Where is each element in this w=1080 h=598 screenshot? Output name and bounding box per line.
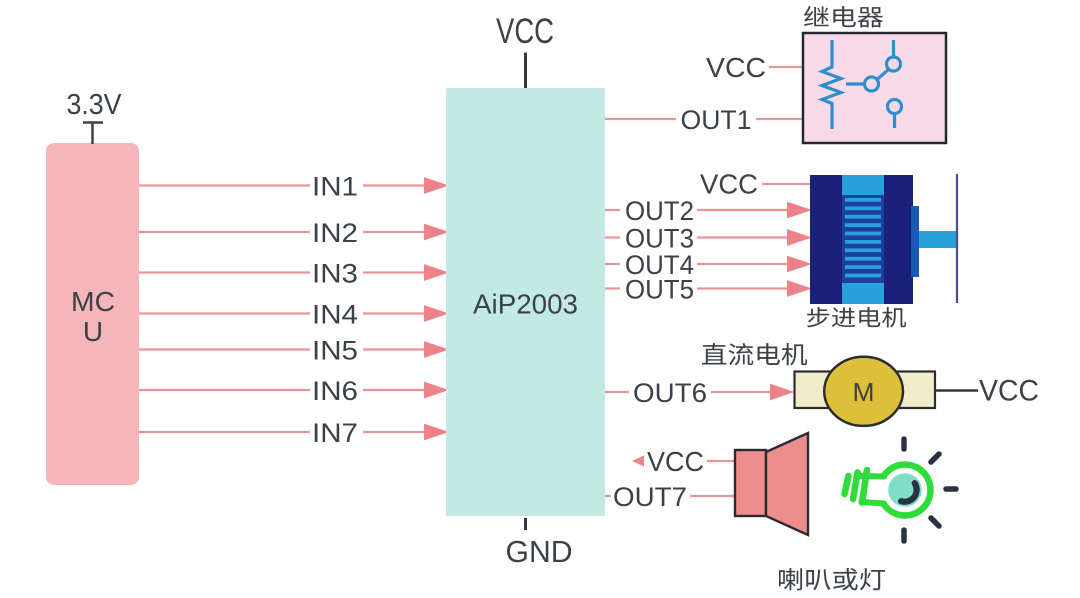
DC motor M2 frame [795,372,936,409]
wire IN3 right segment [363,271,424,273]
svg-text:IN3: IN3 [312,258,358,288]
lamp DS1 neck arms [862,476,885,504]
wire M2 to VCC [935,389,978,391]
wire IN2 left segment [139,231,310,233]
wire OUT1 right segment [756,118,802,120]
speaker LS1 horn [766,433,808,535]
wire OUT2 stub [605,209,620,211]
DC motor M2 rotor circle [824,357,903,426]
stepper M1 top pole [842,175,884,195]
svg-text:GND: GND [506,534,573,569]
wire OUT6 stub [605,391,629,393]
svg-text:MC: MC [71,286,115,317]
stepper M1 shaft [919,231,957,248]
arrowhead OUT3 [787,229,812,246]
svg-text:IN4: IN4 [312,299,358,329]
arrowhead IN6 into U2 [424,382,449,399]
wire OUT3 to motor [697,236,787,238]
arrowhead IN1 into U2 [424,177,449,194]
stepper M1 mount line [956,174,958,303]
svg-text:VCC: VCC [700,169,758,200]
arrowhead IN2 into U2 [424,224,449,241]
arrowhead IN5 into U2 [424,341,449,358]
lamp DS1 inner glow [888,473,922,507]
wire IN5 left segment [139,348,310,350]
wire VCC to relay K1 [769,66,803,68]
MCU U1 label [71,286,115,347]
wire OUT5 to motor [697,287,787,289]
driver IC U2 AiP2003 body [446,88,605,516]
wire VCC to speaker LS1 [707,460,734,462]
svg-text:VCC: VCC [647,446,704,477]
wire OUT4 stub [605,263,620,265]
svg-text:M: M [853,377,875,407]
svg-text:OUT2: OUT2 [625,196,694,226]
svg-text:VCC: VCC [979,374,1039,407]
relay K1 contacts [846,40,902,128]
arrowhead OUT4 [787,256,812,273]
wire OUT5 stub [605,287,620,289]
arrowhead OUT6 [770,384,794,401]
lamp DS1 base threads [845,470,868,503]
svg-text:IN2: IN2 [312,218,358,248]
component label DC motor 直流电机 [702,343,807,365]
stepper motor M1 body [810,175,913,304]
wire IN1 right segment [363,184,424,186]
svg-text:OUT3: OUT3 [625,223,694,253]
svg-text:OUT6: OUT6 [633,378,707,408]
lamp DS1 filament arc [901,483,917,502]
MCU U1 body [46,143,139,485]
relay K1 box [803,33,946,143]
svg-text:OUT7: OUT7 [613,482,687,512]
power rail symbol 3.3V [83,123,103,145]
svg-text:AiP2003: AiP2003 [473,289,578,320]
wire OUT6 to motor M2 [711,391,770,393]
wire IN3 left segment [139,271,310,273]
wire OUT7 stub [605,495,611,497]
wire OUT4 to motor [697,263,787,265]
lamp DS1 bulb glass ring [884,465,931,516]
svg-text:OUT1: OUT1 [681,105,752,135]
component label stepper 步进电机 [807,307,906,327]
wire IN6 right segment [363,389,424,391]
stepper M1 coil background [842,195,884,283]
wire VCC to stepper M1 [762,183,810,185]
arrowhead IN3 into U2 [424,264,449,281]
arrowhead IN4 into U2 [424,305,449,322]
svg-text:VCC: VCC [496,12,554,51]
svg-text:IN7: IN7 [312,418,358,448]
wire OUT2 to motor [697,209,787,211]
arrowhead VCC (speaker, points left) [632,456,644,467]
speaker LS1 driver box [735,450,766,516]
svg-text:3.3V: 3.3V [67,89,123,121]
wire OUT3 stub [605,236,620,238]
arrowhead IN7 into U2 [424,424,449,441]
wire IN7 right segment [363,431,424,433]
wire IN7 left segment [139,431,310,433]
svg-text:IN1: IN1 [312,171,358,201]
wire IN6 left segment [139,389,310,391]
wire GND stem from U2 [524,518,527,530]
stepper M1 bottom pole [842,283,884,304]
arrowhead OUT5 [787,280,812,297]
wire IN1 left segment [139,184,310,186]
wire IN2 right segment [363,231,424,233]
stepper M1 winding stripes [845,198,881,277]
wire IN5 right segment [363,348,424,350]
svg-text:U: U [83,316,103,347]
wire VCC stem to U2 [524,53,527,89]
arrowhead OUT2 [787,202,812,219]
relay K1 coil [822,40,841,129]
lamp DS1 light rays [904,439,956,541]
stepper M1 bearing tab [911,206,919,277]
wire OUT7 to speaker LS1 [690,495,734,497]
wire IN4 right segment [363,312,424,314]
svg-text:IN5: IN5 [312,335,358,365]
svg-text:VCC: VCC [706,52,766,83]
wire IN4 left segment [139,312,310,314]
svg-text:IN6: IN6 [312,376,358,406]
wire OUT1 left segment [605,118,676,120]
component label speaker/lamp 喇叭或灯 [779,568,885,590]
component label relay 继电器 [804,6,883,27]
svg-text:OUT5: OUT5 [625,274,694,304]
